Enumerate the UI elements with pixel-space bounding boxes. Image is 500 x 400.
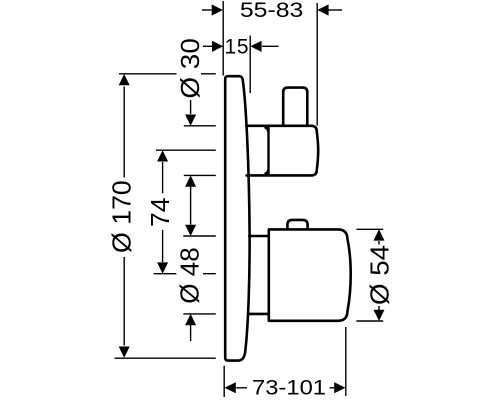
upper sleeve/grip edge line with fillets — [266, 127, 269, 175]
dimension 74 line and arrows — [157, 150, 168, 274]
ref line L1: plate top (Ø170 / Ø30 top) — [119, 73, 216, 75]
ref line L3: upper body center (74 top) — [156, 149, 216, 151]
svg-text:Ø 48: Ø 48 — [175, 247, 205, 304]
extension line: plate front (15) — [249, 36, 251, 94]
lower sleeve bottom line — [249, 313, 268, 316]
ref line L7: lower sleeve bottom (Ø48) — [183, 313, 216, 315]
extension line: wall plane (bottom) — [223, 366, 225, 397]
lower thermostat handle body — [269, 229, 351, 320]
upper valve body outline — [246, 126, 318, 176]
dimension Ø30 stem and arrow — [185, 100, 196, 126]
ref line L6: lower handle center (74 bottom) — [154, 273, 216, 275]
svg-text:Ø 30: Ø 30 — [175, 38, 205, 99]
shared stem between Ø30 bottom arrow and Ø48 top arrow — [185, 175, 196, 236]
ref line R2: lower body bottom (Ø54) — [356, 320, 383, 322]
svg-text:Ø 170: Ø 170 — [107, 180, 137, 253]
dimension Ø54 line and arrows — [374, 229, 385, 321]
extension line: wall plane (top) — [222, 1, 224, 76]
svg-text:Ø 54: Ø 54 — [365, 245, 395, 305]
svg-text:15: 15 — [225, 36, 249, 59]
escutcheon plate (side profile) — [225, 76, 249, 360]
lower knob stub — [287, 220, 307, 229]
lower sleeve top line — [249, 235, 268, 238]
Ø48 bottom arrow and tail — [185, 314, 196, 341]
extension line: upper handle front (55-83) — [316, 3, 318, 126]
ref line L5: lower sleeve top (Ø48) — [183, 235, 216, 237]
dimension 15 arrows — [203, 41, 279, 52]
dimension Ø170 line and arrows — [119, 74, 130, 358]
svg-text:74: 74 — [145, 197, 175, 227]
ref line R1: lower body top (Ø54) — [356, 228, 383, 230]
svg-text:55-83: 55-83 — [240, 0, 304, 22]
dimension 55-83 arrows — [202, 4, 342, 15]
extension line: lower handle front (73-101) — [345, 327, 347, 396]
upper knob stub — [283, 88, 307, 126]
dimension 73-101 line and arrows — [225, 382, 346, 393]
ref line L2: upper body top (Ø30) — [184, 125, 216, 127]
svg-text:73-101: 73-101 — [252, 377, 326, 400]
ref line L4: upper body bottom (Ø30) — [184, 174, 216, 176]
ref line L8: plate bottom (Ø170) — [115, 357, 216, 359]
